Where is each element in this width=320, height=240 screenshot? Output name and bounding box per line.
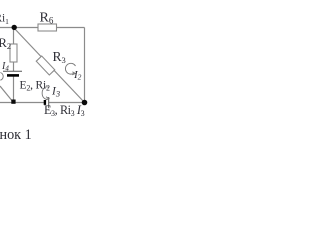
svg-text:E3, Ri3 I3: E3, Ri3 I3 <box>44 103 85 118</box>
svg-text:E2, Ri2: E2, Ri2 <box>20 80 50 93</box>
svg-text:нок 1: нок 1 <box>0 127 32 143</box>
